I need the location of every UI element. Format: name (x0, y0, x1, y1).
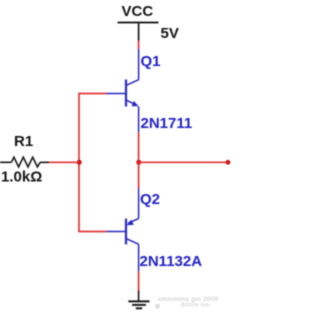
wire output node to terminal (139, 161, 228, 163)
transistor Q1 (106, 49, 139, 132)
resistor R1 (0, 157, 49, 167)
svg-text:Bittim bm: Bittim bm (181, 303, 210, 309)
wire Q2 base to left rail (79, 231, 106, 233)
terminal dot output (226, 160, 231, 165)
svg-text:5V: 5V (161, 25, 179, 42)
power VCC (118, 3, 159, 41)
svg-text:Q1: Q1 (141, 53, 161, 70)
junction R1/base rail (77, 160, 82, 165)
wire output node to Q2 emitter (138, 162, 140, 188)
wire Q1 emitter to output node (138, 132, 140, 162)
wire R1 to junction (49, 161, 79, 163)
svg-text:R1: R1 (14, 133, 33, 150)
svg-text:VCC: VCC (122, 3, 154, 20)
watermark (156, 296, 219, 309)
wire left rail vertical (78, 93, 80, 233)
wire Q2 collector to ground (138, 271, 140, 290)
svg-text:Q2: Q2 (140, 191, 160, 208)
junction output node (136, 160, 141, 165)
wire Q1 base to left rail (79, 93, 106, 95)
ground (128, 291, 149, 309)
transistor Q2 (106, 188, 139, 271)
wire VCC to Q1 collector (138, 41, 140, 50)
svg-text:1.0kΩ: 1.0kΩ (1, 169, 42, 186)
svg-text:2N1132A: 2N1132A (140, 253, 203, 270)
svg-text:2N1711: 2N1711 (141, 115, 193, 132)
